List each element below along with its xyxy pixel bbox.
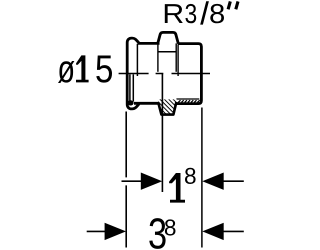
bead inner wall thin line b <box>132 74 134 101</box>
label R3/8" <box>165 1 224 24</box>
hex right face thin line <box>175 43 177 71</box>
thread top edge and right end face <box>176 44 202 104</box>
dim 1 left arrow <box>141 173 162 190</box>
extension line E3 (right end face) <box>201 108 203 248</box>
dim 3 left arrow <box>105 223 126 240</box>
digit 1 of ø15 (footed style) <box>76 55 89 82</box>
hex top silhouette (trapezoid flat) <box>158 32 179 43</box>
dim 1 value <box>169 173 185 203</box>
socket bottom edge <box>134 102 160 105</box>
extension line E2 (insertion depth) <box>161 74 163 193</box>
bead inner wall thin line a <box>129 74 131 101</box>
thread root thin line (section) <box>176 98 199 100</box>
double prime of R3/8" <box>228 1 238 9</box>
centerline (dash-dot axis) <box>119 73 210 75</box>
hex chamfer thin line <box>158 51 176 53</box>
press bead outline (left socket end) <box>127 38 138 109</box>
dim 1 superscript 8 <box>185 168 196 184</box>
thread hatch band <box>178 100 200 102</box>
dim 3 superscript 8 <box>165 219 176 235</box>
dim 3 right tail <box>223 230 244 232</box>
label diameter ø15 <box>58 61 74 83</box>
dim 1 left tail <box>122 180 143 182</box>
bead/socket transition thin line <box>136 44 138 76</box>
dim 1 right tail <box>223 180 244 182</box>
bead sectioned wall solid blob <box>128 100 134 105</box>
hex/thread boundary thin line <box>177 45 179 76</box>
dim 3 right arrow <box>202 223 223 240</box>
hex sectioned bottom outline <box>158 102 176 115</box>
socket top edge <box>138 42 160 45</box>
digit 5 of ø15 <box>96 55 112 82</box>
dim 3 left tail <box>87 230 106 232</box>
hex left face thin line <box>157 43 159 71</box>
hex sectioned bottom hatch fill <box>158 99 177 114</box>
extension line E1 (left end face) <box>125 112 127 248</box>
dim 3 value <box>149 218 165 249</box>
dim 1 right arrow <box>202 173 223 190</box>
